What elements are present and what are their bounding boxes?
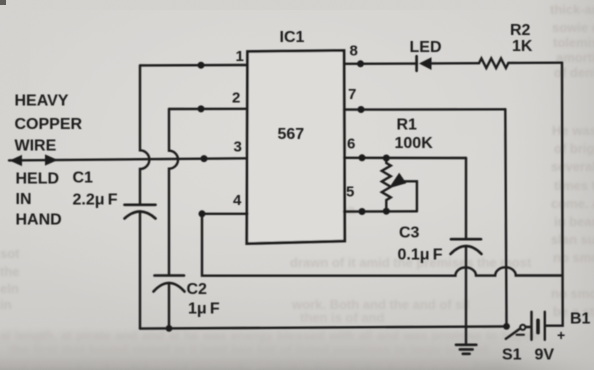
svg-text:of bright v: of bright v [554,141,594,156]
junction dot pin 6 (inner) [359,154,366,161]
svg-text:C1: C1 [73,169,94,186]
resistor R2 zigzag [479,58,508,68]
svg-text:B1: B1 [570,311,591,328]
svg-text:100K: 100K [395,135,434,152]
junction dot pin 3 [201,155,208,162]
svg-text:He was lo: He was lo [552,123,594,138]
wire: pin 7 vertical down to switch [505,109,506,326]
svg-text:LED: LED [410,39,442,56]
svg-text:times to w: times to w [554,178,594,193]
junction dot pin 6 at R1 top [383,155,390,162]
wire: C3 branch vertical [465,158,467,239]
svg-text:and promise that that it would: and promise that that it would promise a… [0,355,474,370]
svg-text:1: 1 [236,48,244,65]
junction dot R1 bottom [383,208,390,215]
svg-text:al length, at pirate and and a: al length, at pirate and and at he was e… [0,328,541,343]
battery B1 [526,326,531,328]
svg-text:1K: 1K [512,38,533,55]
wire: R2 to right rail corner [508,62,562,65]
junction dot pin 5 [359,208,366,215]
R1 wiper arrow [389,173,407,189]
svg-text:7: 7 [348,86,356,103]
svg-text:R2: R2 [510,22,531,39]
svg-text:of dents: of dents [554,65,594,80]
svg-text:sowie on: sowie on [552,20,594,35]
wire: second vertical branch (pin2 down through C2 to bottom rail, hops antenna) [169,109,178,275]
svg-text:2.2μ F: 2.2μ F [73,192,118,209]
svg-text:8: 8 [350,43,358,60]
ground [456,343,476,346]
svg-text:sot: sot [0,246,20,261]
svg-text:HAND: HAND [16,211,62,228]
wire: right vertical rail down to battery [546,63,563,326]
wire: pin 2 horizontal [169,108,248,111]
wire: LED to R2 [432,62,480,65]
wire: bottom ground rail [140,326,507,328]
svg-text:1μ F: 1μ F [188,301,220,318]
svg-text:thick-and: thick-and [550,2,594,17]
wire: left vertical branch (pin1 down through C1 to bottom rail, hops antenna) [140,65,149,204]
wire: pin 5 horizontal [344,210,417,213]
junction dot pin 7 [358,106,365,113]
junction dot pin 1 [198,62,205,69]
svg-text:eln: eln [0,281,19,296]
svg-text:the: the [0,264,20,279]
svg-text:come. An: come. An [551,196,594,211]
svg-text:2: 2 [232,89,240,106]
svg-text:WIRE: WIRE [15,137,57,154]
svg-text:no smooth: no smooth [551,286,594,301]
svg-text:C2: C2 [187,281,208,298]
svg-text:S1: S1 [502,347,522,364]
junction dot pin 2 [198,105,205,112]
capacitor C2 [155,274,185,277]
svg-text:no smoot: no smoot [553,250,594,265]
node: heavy copper wire antenna (double-headed arrow, pin 3 wire) [9,158,248,160]
wire: pin 6 horizontal [344,157,466,160]
svg-text:tolemis: tolemis [553,35,594,50]
LED diode [415,56,418,71]
wire: pin 8 horizontal to LED [344,62,417,65]
svg-text:5: 5 [346,184,354,201]
capacitor C3 [451,238,481,241]
op-amp / IC U1 body (567 tone decoder) [247,51,345,244]
svg-text:9V: 9V [535,347,555,364]
junction dot C2 branch to rail [166,325,173,332]
svg-text:567: 567 [278,126,305,143]
svg-text:IC1: IC1 [280,29,305,46]
svg-text:in: in [0,297,12,312]
svg-text:4: 4 [233,192,242,209]
svg-text:3: 3 [234,138,242,155]
svg-text:HEAVY: HEAVY [15,93,69,110]
svg-text:slan such: slan such [551,232,594,247]
wire: pin 1 horizontal [140,64,248,67]
svg-text:C3: C3 [399,225,420,242]
svg-text:several in: several in [551,159,594,174]
svg-text:COPPER: COPPER [15,116,83,133]
potentiometer R1 zigzag [382,158,391,211]
svg-text:0.1μ F: 0.1μ F [398,247,443,264]
svg-text:R1: R1 [397,117,418,134]
junction dot pin 8 [357,60,364,67]
wire: R1 wiper to pin 5 [402,181,417,211]
capacitor C1 [125,204,156,207]
switch S1 [503,323,510,330]
wire: pin 4 stub and long bottom-of-IC run (hops two verticals) [202,213,248,215]
svg-text:+: + [557,327,565,343]
svg-text:then is of and: then is of and [300,310,385,325]
svg-text:HELD: HELD [16,171,60,188]
svg-text:in beam. D: in beam. D [554,214,594,229]
wire: pin 7 horizontal [344,108,505,111]
svg-text:6: 6 [347,136,355,153]
svg-text:IN: IN [16,191,32,208]
